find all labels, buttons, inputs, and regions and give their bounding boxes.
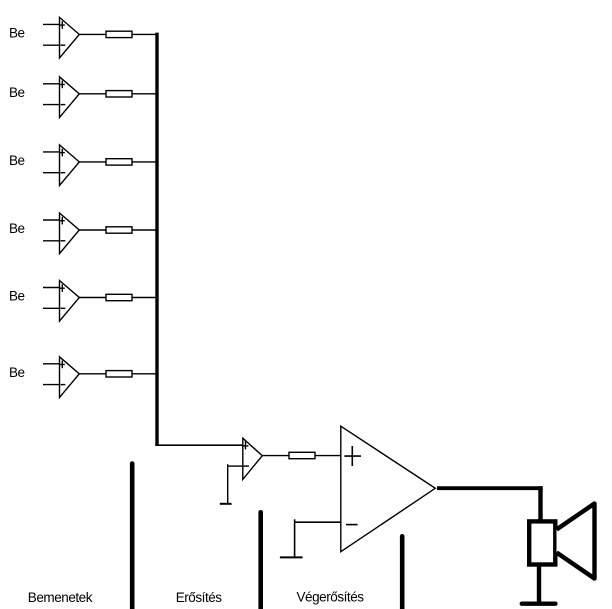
- svg-text:Be: Be: [9, 85, 25, 100]
- wire: channel 1 inverting input stub: [43, 44, 60, 46]
- op-amp buffer A5: [60, 281, 80, 322]
- op-amp buffer A2: [60, 77, 80, 118]
- wire: inverting input down leg to ground: [294, 519, 296, 558]
- wire: output down to speaker: [538, 486, 542, 520]
- resistor R2: [106, 91, 132, 97]
- wire: resistor R6 to summing bus: [132, 373, 157, 375]
- wire: buffer A1 output to resistor R1: [79, 33, 106, 35]
- wire: inverting input down leg: [227, 464, 229, 504]
- resistor R5: [106, 294, 132, 300]
- wire: summing amp output to resistor R7: [262, 455, 289, 457]
- wire: resistor R3 to summing bus: [132, 161, 157, 163]
- wire: power amp inverting input: [295, 521, 341, 523]
- wire: channel 6 inverting input stub: [43, 384, 60, 386]
- resistor R6: [106, 371, 132, 377]
- svg-text:Erősítés: Erősítés: [176, 590, 223, 605]
- wire: channel 3 non-inverting input stub: [43, 151, 60, 153]
- wire: resistor R1 to summing bus: [132, 33, 157, 35]
- svg-text:Be: Be: [9, 289, 25, 304]
- wire: summing bus (vertical): [155, 33, 158, 446]
- wire: power amp output (thick horizontal): [437, 486, 543, 490]
- wire: buffer A2 output to resistor R2: [79, 93, 106, 95]
- ground (summing amp): [220, 503, 232, 505]
- wire: channel 4 inverting input stub: [43, 240, 60, 242]
- op-amp summing amplifier A7: [243, 438, 262, 479]
- wire: channel 5 non-inverting input stub: [43, 287, 60, 289]
- op-amp buffer A4: [60, 213, 80, 254]
- op-amp buffer A1: [60, 17, 80, 58]
- section divider (Erősítés / Végerősítés): [258, 512, 263, 609]
- wire: speaker to ground: [537, 565, 541, 603]
- wire: bus to summing amp non-inverting input: [155, 444, 243, 446]
- ground (power amp): [280, 556, 303, 558]
- resistor R7: [289, 452, 315, 458]
- wire: channel 5 inverting input stub: [43, 307, 60, 309]
- wire: channel 1 non-inverting input stub: [43, 23, 60, 25]
- resistor R4: [106, 227, 132, 233]
- svg-text:Be: Be: [9, 153, 25, 168]
- wire: channel 4 non-inverting input stub: [43, 219, 60, 221]
- wire: resistor R5 to summing bus: [132, 297, 157, 299]
- wire: buffer A6 output to resistor R6: [79, 373, 106, 375]
- op-amp buffer A3: [60, 145, 80, 186]
- svg-text:Végerősítés: Végerősítés: [297, 590, 365, 605]
- resistor R3: [106, 159, 132, 165]
- svg-text:Bemenetek: Bemenetek: [28, 590, 93, 605]
- wire: buffer A5 output to resistor R5: [79, 297, 106, 299]
- op-amp buffer A6: [60, 357, 80, 398]
- svg-text:Be: Be: [9, 221, 25, 236]
- wire: resistor R4 to summing bus: [132, 229, 157, 231]
- section divider (Végerősítés / output): [400, 536, 405, 609]
- svg-text:Be: Be: [9, 365, 25, 380]
- wire: buffer A3 output to resistor R3: [79, 161, 106, 163]
- svg-text:Be: Be: [9, 25, 25, 40]
- section divider (Bemenetek / Erősítés): [130, 464, 135, 609]
- wire: resistor R7 to power amp non-inverting input: [315, 455, 342, 457]
- ground (speaker): [522, 602, 556, 606]
- wire: channel 3 inverting input stub: [43, 172, 60, 174]
- resistor R1: [106, 31, 132, 37]
- speaker LS1: [529, 504, 594, 579]
- wire: summing amp inverting input: [228, 465, 243, 467]
- wire: channel 2 non-inverting input stub: [43, 83, 60, 85]
- wire: buffer A4 output to resistor R4: [79, 229, 106, 231]
- op-amp power amplifier U1: [341, 426, 436, 552]
- wire: channel 2 inverting input stub: [43, 104, 60, 106]
- wire: channel 6 non-inverting input stub: [43, 363, 60, 365]
- wire: resistor R2 to summing bus: [132, 93, 157, 95]
